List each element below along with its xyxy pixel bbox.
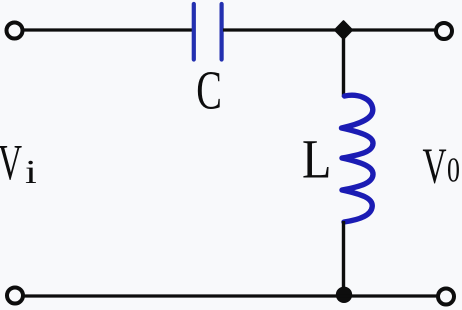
terminal top-left [7, 23, 23, 39]
svg-text:V: V [423, 139, 447, 194]
capacitor C (plates) [194, 4, 222, 60]
label Vi [0, 136, 37, 191]
node junction top (diamond dot) [335, 21, 352, 39]
terminal bottom-left [7, 288, 23, 304]
svg-text:V: V [0, 136, 22, 191]
wire vertical lower (L to junction) [342, 221, 345, 296]
svg-text:i: i [25, 154, 37, 191]
wire vertical upper (junction to L) [342, 30, 345, 97]
wire top-right segment (C to terminal) [223, 28, 436, 31]
svg-text:0: 0 [447, 151, 460, 190]
inductor L (coil) [342, 95, 374, 222]
node junction bottom (dot) [336, 287, 352, 303]
terminal top-right [436, 23, 452, 39]
wire bottom segment [23, 294, 438, 297]
label V0 [423, 139, 460, 194]
terminal bottom-right [438, 289, 454, 305]
wire top-left segment (terminal to C) [23, 28, 193, 31]
svg-text:L: L [302, 130, 331, 191]
svg-text:C: C [196, 61, 222, 121]
